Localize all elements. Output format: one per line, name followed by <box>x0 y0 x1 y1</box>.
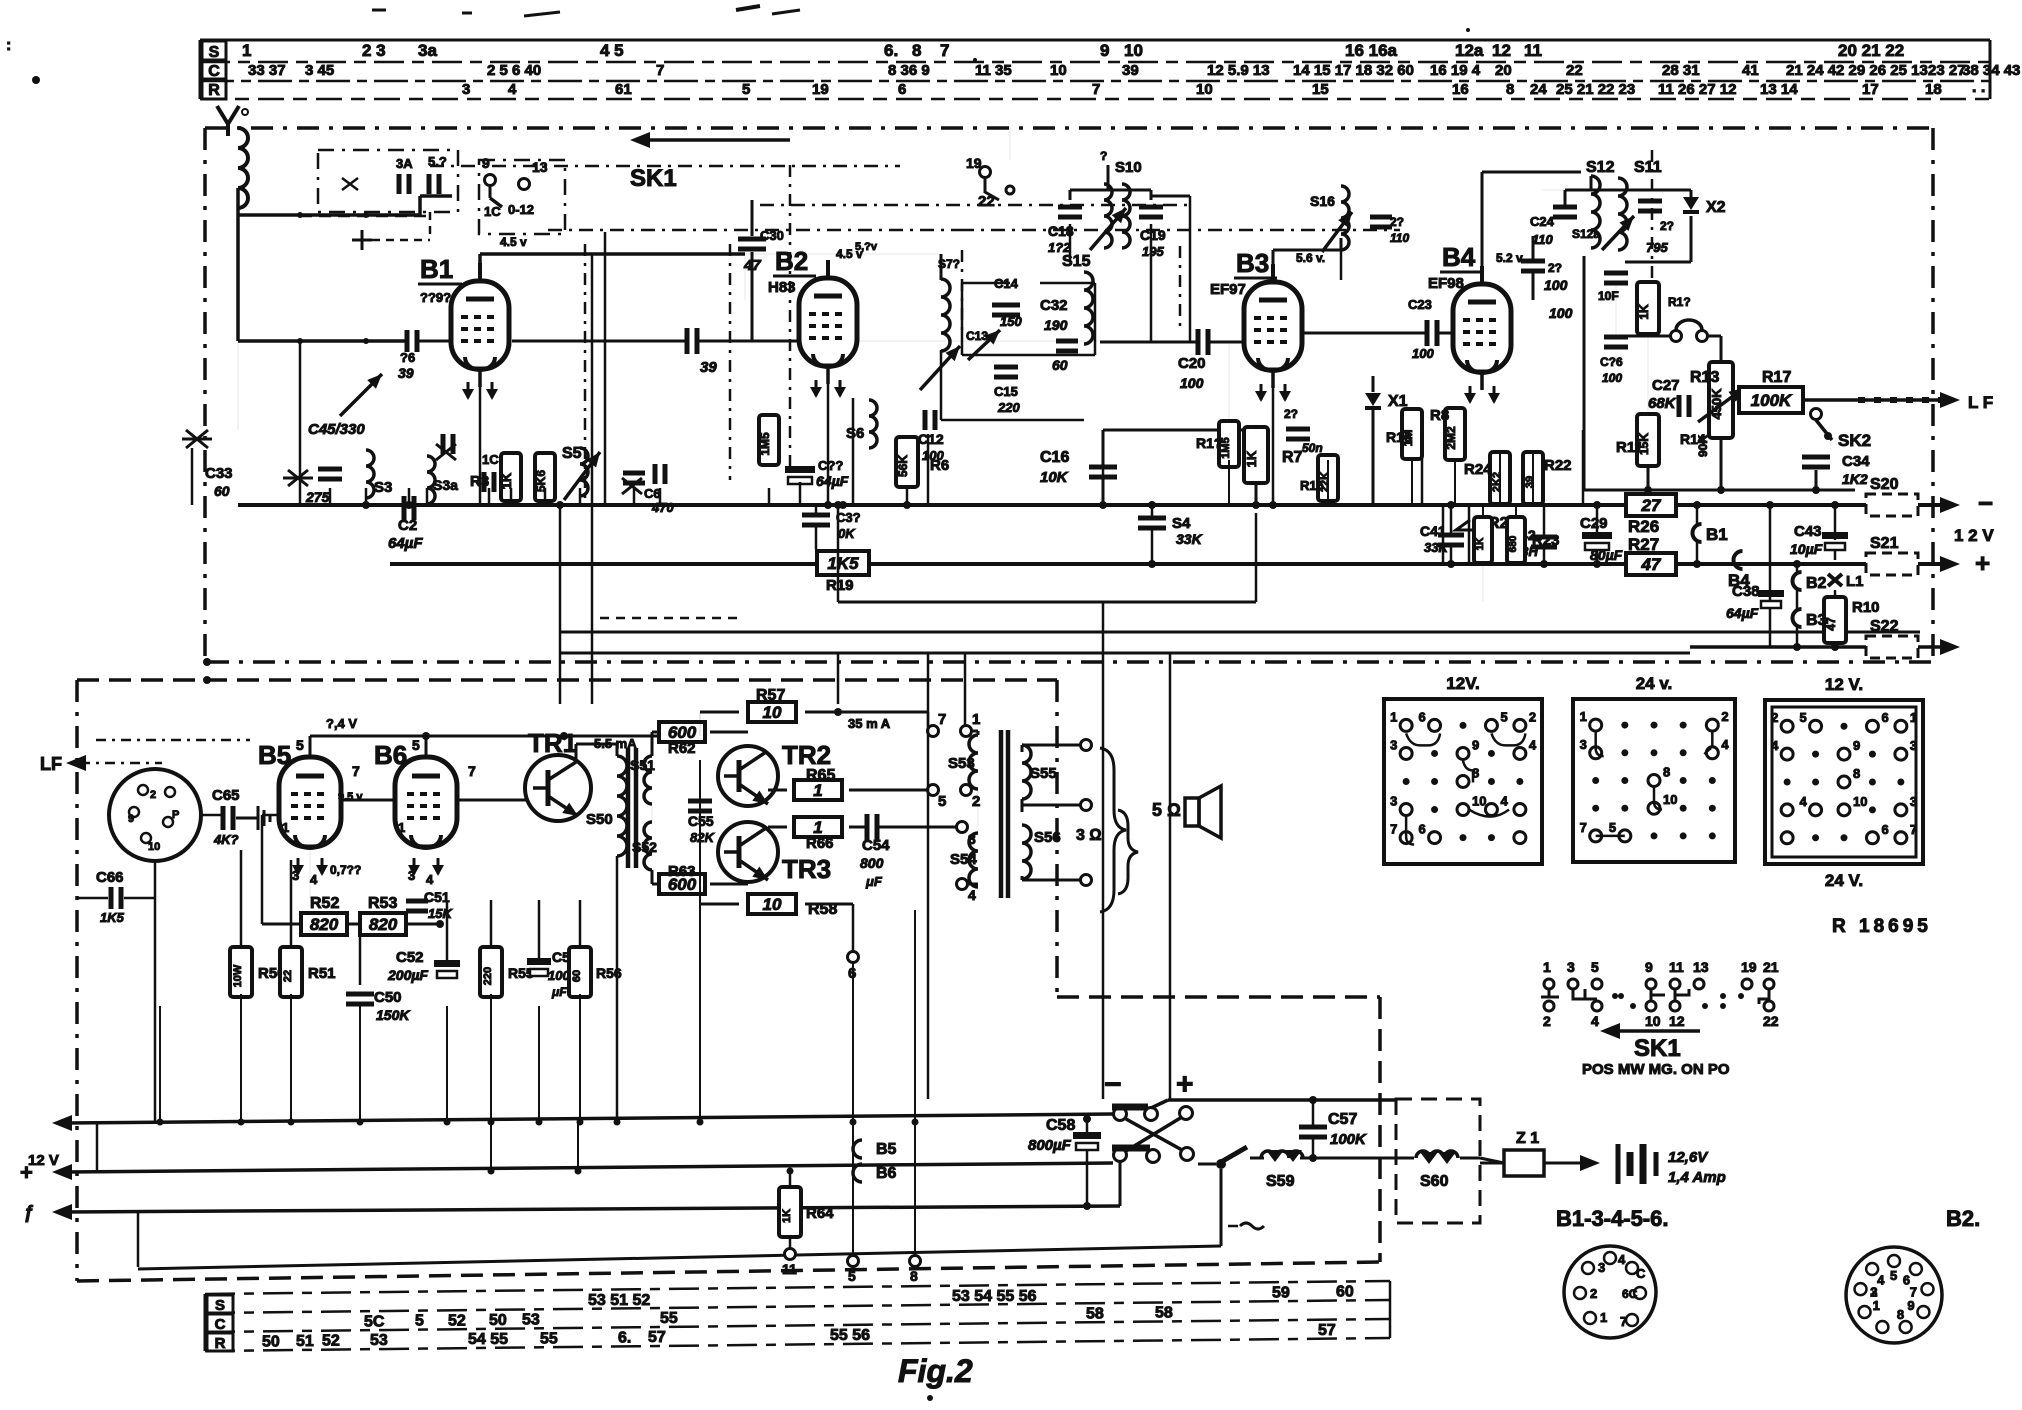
svg-text:33K: 33K <box>1424 540 1449 555</box>
svg-text:S10: S10 <box>1115 159 1142 176</box>
svg-text:52: 52 <box>448 1312 466 1329</box>
svg-text:21 24 42 29 26 25 13: 21 24 42 29 26 25 13 <box>1786 62 1928 79</box>
svg-text:S20: S20 <box>1870 476 1899 493</box>
svg-text:2: 2 <box>1543 1013 1551 1029</box>
svg-text:110: 110 <box>1532 232 1553 247</box>
svg-text:55 56: 55 56 <box>830 1327 870 1344</box>
svg-text:C12: C12 <box>918 431 944 447</box>
svg-text:R19: R19 <box>826 577 854 594</box>
svg-text:3: 3 <box>1567 959 1575 975</box>
svg-text:R24: R24 <box>1464 461 1492 478</box>
svg-text:R1?: R1? <box>1196 435 1222 451</box>
svg-text:1: 1 <box>1390 709 1397 724</box>
svg-text:20 21 22: 20 21 22 <box>1838 41 1904 60</box>
svg-text:5: 5 <box>742 81 750 98</box>
svg-text:60: 60 <box>214 483 230 499</box>
svg-text:C13: C13 <box>966 329 988 343</box>
svg-text:50: 50 <box>489 1312 507 1329</box>
svg-text:S3: S3 <box>374 479 392 496</box>
svg-text:5: 5 <box>415 1313 424 1330</box>
svg-text:3: 3 <box>1910 738 1917 753</box>
svg-text:1K5: 1K5 <box>827 554 859 573</box>
svg-text:19: 19 <box>966 155 982 171</box>
svg-text:TR3: TR3 <box>782 854 831 884</box>
svg-text:41: 41 <box>1742 62 1759 79</box>
svg-text:6.: 6. <box>884 41 898 60</box>
svg-text:POS MW MG. ON PO: POS MW MG. ON PO <box>1582 1061 1730 1078</box>
svg-text:P: P <box>172 809 179 821</box>
svg-text:R15: R15 <box>1300 478 1324 493</box>
svg-text:0,7??: 0,7?? <box>330 863 361 877</box>
svg-text:C65: C65 <box>212 787 240 804</box>
svg-text:19: 19 <box>1741 959 1757 975</box>
svg-text:R16: R16 <box>1386 429 1412 445</box>
svg-text:R62: R62 <box>668 740 696 757</box>
svg-text:3a: 3a <box>418 41 437 60</box>
svg-text:8 36 9: 8 36 9 <box>888 62 930 79</box>
svg-text:SK1: SK1 <box>1634 1035 1681 1062</box>
svg-text:15: 15 <box>1312 81 1329 98</box>
svg-text:C20: C20 <box>1178 355 1206 372</box>
svg-text:S4: S4 <box>1172 515 1191 532</box>
svg-text:24: 24 <box>1530 81 1547 98</box>
svg-text:12,6V: 12,6V <box>1668 1149 1709 1166</box>
svg-text:B3: B3 <box>1236 248 1269 278</box>
svg-text:C15: C15 <box>994 384 1018 399</box>
svg-text:6: 6 <box>1881 822 1888 837</box>
svg-text:6.: 6. <box>618 1329 631 1346</box>
svg-text:1K: 1K <box>781 1209 793 1223</box>
svg-text:R65: R65 <box>806 767 835 784</box>
svg-text:C45/330: C45/330 <box>308 421 365 438</box>
svg-text:?6: ?6 <box>400 350 415 365</box>
svg-text:2: 2 <box>1771 710 1778 725</box>
svg-text:TR1: TR1 <box>528 728 577 758</box>
svg-text:22: 22 <box>978 193 995 210</box>
svg-text:4: 4 <box>1618 1252 1626 1267</box>
svg-text:R23: R23 <box>1532 532 1560 549</box>
svg-text:5.6 v.: 5.6 v. <box>1296 251 1325 265</box>
svg-text:7: 7 <box>1092 81 1100 98</box>
svg-text:S16: S16 <box>1310 193 1335 209</box>
svg-text:C: C <box>1636 1266 1646 1281</box>
svg-text:2M2: 2M2 <box>1444 426 1458 450</box>
svg-text:150: 150 <box>1000 314 1022 329</box>
svg-text:60: 60 <box>1052 357 1068 373</box>
svg-text:55: 55 <box>540 1330 558 1347</box>
svg-text:54 55: 54 55 <box>468 1331 508 1348</box>
svg-text:10: 10 <box>763 895 782 914</box>
svg-text:C50: C50 <box>374 989 402 1006</box>
svg-text:1: 1 <box>398 820 405 835</box>
svg-text:1: 1 <box>1600 1310 1607 1325</box>
svg-text:8: 8 <box>910 1268 918 1284</box>
svg-text:2: 2 <box>972 793 980 810</box>
svg-text:10: 10 <box>1663 792 1677 807</box>
svg-text:68K: 68K <box>1648 395 1677 412</box>
svg-text:100K: 100K <box>1330 1131 1367 1148</box>
svg-text:C38: C38 <box>1732 583 1760 600</box>
svg-text:3A: 3A <box>396 156 413 171</box>
svg-text:9: 9 <box>1907 1298 1914 1313</box>
svg-text:11: 11 <box>1669 959 1684 975</box>
svg-text:C32: C32 <box>1040 297 1068 314</box>
svg-text:10: 10 <box>148 841 160 853</box>
svg-text:195: 195 <box>1142 244 1164 259</box>
svg-text:ƒ: ƒ <box>24 1202 34 1222</box>
svg-text:5: 5 <box>1609 820 1616 835</box>
svg-text:1C: 1C <box>484 204 501 219</box>
svg-text:16: 16 <box>1452 81 1469 98</box>
svg-text:1 2 V: 1 2 V <box>1954 526 1994 545</box>
svg-text:5: 5 <box>296 737 304 753</box>
svg-text:S12: S12 <box>1586 159 1615 176</box>
svg-text:11: 11 <box>782 1261 797 1277</box>
svg-text:1: 1 <box>1543 959 1551 975</box>
svg-text:B1: B1 <box>420 254 453 284</box>
svg-text:5 Ω: 5 Ω <box>1152 800 1181 820</box>
svg-text:53: 53 <box>370 1332 388 1349</box>
svg-text:S15: S15 <box>1062 253 1091 270</box>
svg-text:3 45: 3 45 <box>305 62 334 79</box>
svg-text:8: 8 <box>1663 765 1670 780</box>
svg-text:820: 820 <box>310 915 339 934</box>
svg-text:1: 1 <box>1910 710 1917 725</box>
svg-text:S3a: S3a <box>433 477 458 493</box>
svg-text:1: 1 <box>972 711 980 728</box>
svg-text:12: 12 <box>1669 1013 1685 1029</box>
svg-text:R64: R64 <box>806 1205 834 1222</box>
svg-text:1: 1 <box>1873 1298 1880 1313</box>
svg-text:58: 58 <box>1086 1305 1104 1322</box>
svg-text:R7: R7 <box>1282 449 1303 466</box>
svg-text:27: 27 <box>1641 496 1662 515</box>
svg-text:57: 57 <box>648 1329 666 1346</box>
svg-text:10: 10 <box>1853 794 1867 809</box>
svg-text:50: 50 <box>262 1333 280 1350</box>
svg-text:4: 4 <box>1591 1013 1599 1029</box>
svg-text:R13: R13 <box>1690 369 1719 386</box>
svg-text:16 16a: 16 16a <box>1345 41 1398 60</box>
svg-text:C??: C?? <box>818 458 843 473</box>
svg-text:0K: 0K <box>838 526 856 541</box>
svg-text:9: 9 <box>1645 959 1653 975</box>
svg-text:B1: B1 <box>1706 525 1728 544</box>
svg-text:S59: S59 <box>1266 1173 1295 1190</box>
svg-text:60: 60 <box>1336 1284 1354 1301</box>
svg-text:1,4 Amp: 1,4 Amp <box>1668 1169 1726 1186</box>
svg-text:23 27: 23 27 <box>1928 62 1966 79</box>
svg-text:C57: C57 <box>1328 1111 1357 1128</box>
svg-text:9: 9 <box>128 813 134 825</box>
svg-text:5: 5 <box>848 1268 856 1284</box>
svg-text:B1-3-4-5-6.: B1-3-4-5-6. <box>1556 1206 1668 1231</box>
svg-text:59: 59 <box>1272 1284 1290 1301</box>
svg-text:800µF: 800µF <box>1028 1137 1072 1154</box>
svg-text:17: 17 <box>1862 81 1879 98</box>
svg-text:3: 3 <box>1390 737 1397 752</box>
svg-text:9: 9 <box>1100 41 1109 60</box>
svg-text:39: 39 <box>1524 476 1536 488</box>
svg-text:S22: S22 <box>1870 618 1899 635</box>
svg-text:10: 10 <box>1196 81 1213 98</box>
svg-text:13: 13 <box>1693 959 1709 975</box>
svg-text:6C: 6C <box>1622 1287 1638 1301</box>
svg-text:12 V.: 12 V. <box>1825 675 1863 694</box>
svg-text:2 3: 2 3 <box>362 41 386 60</box>
svg-text:R22: R22 <box>1544 457 1572 474</box>
svg-text:51: 51 <box>296 1333 314 1350</box>
svg-text:B2: B2 <box>1806 575 1827 592</box>
svg-text:10: 10 <box>763 703 782 722</box>
svg-text:24 v.: 24 v. <box>1636 674 1673 693</box>
svg-text:110: 110 <box>1390 231 1409 245</box>
svg-text:12: 12 <box>1492 41 1511 60</box>
svg-text:L1: L1 <box>1846 573 1864 590</box>
svg-text:5: 5 <box>1500 709 1507 724</box>
svg-text:EF97: EF97 <box>1210 281 1246 298</box>
svg-text:4: 4 <box>1771 738 1779 753</box>
svg-text:C33: C33 <box>205 465 233 482</box>
svg-text:R17: R17 <box>1762 369 1791 386</box>
svg-text:7: 7 <box>1620 1314 1627 1329</box>
svg-text:220: 220 <box>997 400 1020 415</box>
svg-text:22: 22 <box>282 970 294 982</box>
svg-text:C29: C29 <box>1580 515 1608 532</box>
svg-text:4 5: 4 5 <box>600 41 624 60</box>
svg-text:SK1: SK1 <box>630 165 677 192</box>
svg-text:39: 39 <box>398 365 414 381</box>
svg-text:58: 58 <box>1155 1305 1173 1322</box>
svg-text:100: 100 <box>1549 305 1573 321</box>
svg-text:R66: R66 <box>806 835 834 852</box>
svg-text:9: 9 <box>1853 738 1860 753</box>
svg-text:4.5 v: 4.5 v <box>500 235 527 249</box>
svg-text:1M5: 1M5 <box>758 432 772 456</box>
svg-text::: : <box>6 37 11 54</box>
svg-text:100K: 100K <box>1751 391 1793 410</box>
svg-text:1: 1 <box>242 41 251 60</box>
svg-text:10µF: 10µF <box>1790 541 1823 557</box>
svg-text:50n: 50n <box>1302 441 1323 455</box>
svg-text:C3?: C3? <box>836 510 861 525</box>
svg-text:100: 100 <box>1412 346 1434 361</box>
svg-text:3: 3 <box>292 868 299 883</box>
svg-text:64µF: 64µF <box>388 535 423 552</box>
svg-text:B2.: B2. <box>1946 1206 1980 1231</box>
svg-text:19: 19 <box>812 81 829 98</box>
svg-text:6: 6 <box>898 81 906 98</box>
svg-text:C66: C66 <box>96 869 124 886</box>
svg-text:R: R <box>215 1335 226 1352</box>
svg-text:25 21 22 23: 25 21 22 23 <box>1556 81 1635 98</box>
svg-text:S55: S55 <box>1030 765 1057 782</box>
svg-text:C2: C2 <box>398 517 417 534</box>
svg-text:7: 7 <box>1580 820 1587 835</box>
svg-text:4: 4 <box>968 887 976 903</box>
svg-text:R51: R51 <box>308 965 336 982</box>
svg-text:3: 3 <box>408 868 415 883</box>
svg-text:EF98: EF98 <box>1428 275 1464 292</box>
svg-text:S12a: S12a <box>1572 227 1600 241</box>
svg-text:11 26 27 12: 11 26 27 12 <box>1658 81 1736 98</box>
svg-text:5C: 5C <box>364 1313 385 1330</box>
svg-text:Fig.2: Fig.2 <box>898 1353 973 1389</box>
svg-text:μF: μF <box>865 874 883 889</box>
svg-text:12a: 12a <box>1455 41 1484 60</box>
svg-text:C34: C34 <box>1842 453 1870 470</box>
svg-text:5: 5 <box>1890 1268 1897 1283</box>
svg-text:16 19 4: 16 19 4 <box>1430 62 1481 79</box>
svg-text:5: 5 <box>412 737 420 753</box>
svg-text:275: 275 <box>305 489 330 505</box>
svg-text:53 54 55 56: 53 54 55 56 <box>952 1288 1037 1305</box>
svg-text:S51: S51 <box>630 757 655 773</box>
svg-text:33K: 33K <box>1176 531 1203 547</box>
svg-text:20: 20 <box>1495 62 1512 79</box>
svg-text:3: 3 <box>1598 1260 1605 1275</box>
svg-text:795: 795 <box>1646 240 1668 255</box>
svg-text:2: 2 <box>150 789 156 801</box>
svg-text:L F: L F <box>1968 393 1993 412</box>
svg-text:C23: C23 <box>1408 297 1432 312</box>
svg-text:7: 7 <box>1390 822 1397 837</box>
svg-text:S53: S53 <box>948 755 975 772</box>
svg-text:100: 100 <box>1602 371 1622 385</box>
svg-text:7: 7 <box>468 763 476 779</box>
svg-text:4: 4 <box>508 81 517 98</box>
svg-text:. .: . . <box>1972 79 1985 96</box>
svg-text:2: 2 <box>1529 709 1536 724</box>
svg-text:7: 7 <box>1910 822 1917 837</box>
svg-text:B5: B5 <box>258 740 291 770</box>
svg-text:H83: H83 <box>768 279 796 296</box>
svg-text:C16: C16 <box>1040 449 1069 466</box>
svg-text:R10: R10 <box>1852 599 1880 616</box>
svg-text:24 V.: 24 V. <box>1825 871 1863 890</box>
svg-text:1K5: 1K5 <box>100 910 125 925</box>
svg-text:C52: C52 <box>396 949 424 966</box>
svg-text:S5: S5 <box>562 445 582 462</box>
svg-text:3: 3 <box>1580 737 1587 752</box>
svg-text:6: 6 <box>1419 822 1426 837</box>
svg-text:10: 10 <box>1050 62 1067 79</box>
svg-text:2: 2 <box>1721 709 1728 724</box>
svg-text:3: 3 <box>462 81 470 98</box>
svg-text:10: 10 <box>1124 41 1143 60</box>
svg-text:B2: B2 <box>775 246 808 276</box>
svg-text:S21: S21 <box>1870 535 1899 552</box>
svg-text:4: 4 <box>426 872 434 887</box>
svg-text:52: 52 <box>322 1333 340 1350</box>
svg-text:680: 680 <box>1508 535 1519 552</box>
svg-text:R27: R27 <box>1628 535 1659 554</box>
svg-text:6: 6 <box>1419 709 1426 724</box>
svg-text:8: 8 <box>1853 766 1860 781</box>
svg-text:22: 22 <box>1566 62 1583 79</box>
svg-text:35 m A: 35 m A <box>848 716 891 731</box>
svg-text:4: 4 <box>1721 737 1729 752</box>
svg-text:47: 47 <box>1641 555 1662 574</box>
svg-text:11: 11 <box>1524 41 1542 60</box>
svg-text:9: 9 <box>1472 737 1479 752</box>
svg-text:S60: S60 <box>1420 1173 1449 1190</box>
svg-text:R26: R26 <box>1628 517 1659 536</box>
svg-text:TR2: TR2 <box>782 740 831 770</box>
svg-text:0-12: 0-12 <box>508 202 534 217</box>
svg-text:4: 4 <box>1800 794 1808 809</box>
svg-text:C?6: C?6 <box>1600 355 1623 369</box>
svg-text:C6: C6 <box>644 486 661 501</box>
svg-text:C58: C58 <box>1046 1117 1075 1134</box>
svg-text:B5: B5 <box>876 1141 897 1158</box>
svg-text:13 14: 13 14 <box>1760 81 1798 98</box>
svg-text:2?: 2? <box>1390 215 1404 229</box>
svg-text:S52: S52 <box>632 839 657 855</box>
svg-text:1?2: 1?2 <box>1048 240 1071 255</box>
svg-text:28 31: 28 31 <box>1662 62 1700 79</box>
svg-text:S: S <box>209 44 220 61</box>
svg-text:C: C <box>208 63 220 80</box>
svg-text:+: + <box>1975 548 1990 578</box>
svg-text:?: ? <box>1100 149 1107 163</box>
svg-text:1: 1 <box>282 820 289 835</box>
svg-text:7: 7 <box>940 41 949 60</box>
svg-text:18: 18 <box>1925 81 1942 98</box>
svg-text:1K2: 1K2 <box>1842 471 1868 487</box>
svg-text:S56: S56 <box>1034 829 1061 846</box>
svg-text:C30: C30 <box>760 228 784 243</box>
svg-text:S6: S6 <box>846 425 864 442</box>
svg-text:5.2 v: 5.2 v <box>1496 251 1523 265</box>
svg-text:+: + <box>20 1160 33 1185</box>
svg-text:1: 1 <box>1580 709 1587 724</box>
svg-text:X2: X2 <box>1706 199 1726 216</box>
svg-text:LF: LF <box>40 754 62 774</box>
svg-text:4: 4 <box>310 872 318 887</box>
svg-text:14 15 17 18 32 60: 14 15 17 18 32 60 <box>1293 62 1414 79</box>
svg-text:R52: R52 <box>310 895 339 912</box>
svg-text:C24: C24 <box>1530 214 1555 229</box>
svg-text:2?: 2? <box>1548 261 1562 275</box>
svg-text:5: 5 <box>938 793 946 810</box>
svg-text:1K: 1K <box>1244 450 1259 467</box>
svg-text:R53: R53 <box>368 895 397 912</box>
svg-text:11 35: 11 35 <box>975 62 1012 79</box>
svg-text:5: 5 <box>1800 710 1807 725</box>
svg-text:1K: 1K <box>1637 304 1651 320</box>
svg-text:−: − <box>1978 488 1993 518</box>
svg-text:6: 6 <box>1881 710 1888 725</box>
svg-text:R63: R63 <box>668 863 696 880</box>
svg-text:R 18695: R 18695 <box>1832 916 1932 937</box>
svg-text:8: 8 <box>1897 1307 1904 1322</box>
svg-text:S11: S11 <box>1634 159 1662 176</box>
svg-text:C19: C19 <box>1140 227 1166 243</box>
svg-text:60: 60 <box>571 970 583 982</box>
svg-text:7: 7 <box>352 763 360 779</box>
svg-text:200µF: 200µF <box>387 967 428 983</box>
svg-text:4: 4 <box>1500 794 1508 809</box>
svg-text:22: 22 <box>1763 1013 1779 1029</box>
svg-text:R6: R6 <box>930 457 949 474</box>
svg-text:1K: 1K <box>499 472 514 489</box>
svg-text:47: 47 <box>743 257 761 274</box>
svg-text:64µF: 64µF <box>816 473 849 489</box>
svg-text:39: 39 <box>700 359 717 376</box>
svg-text:2?: 2? <box>1284 407 1298 421</box>
svg-text:C54: C54 <box>862 837 890 854</box>
